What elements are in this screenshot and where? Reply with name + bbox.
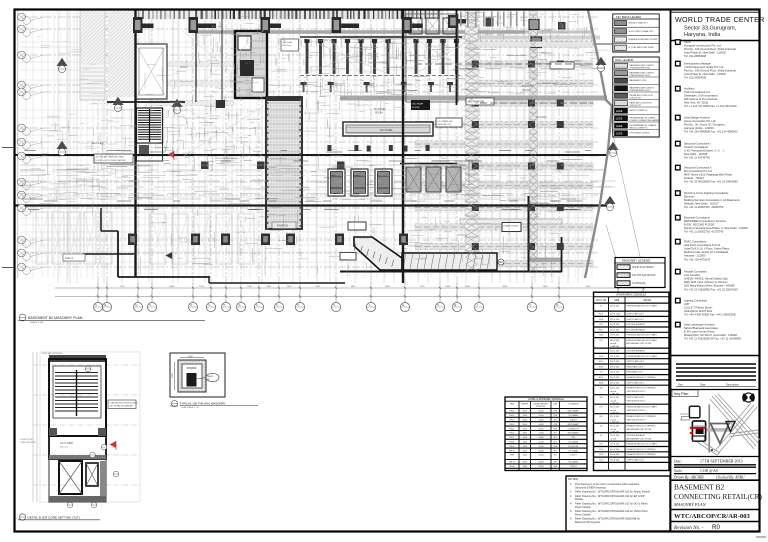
svg-text:+2100: +2100 bbox=[538, 446, 545, 448]
svg-text:TYPICAL 100 THK AAC MASONRY: TYPICAL 100 THK AAC MASONRY bbox=[180, 402, 226, 406]
svg-text:C: C bbox=[208, 303, 210, 307]
svg-text:K: K bbox=[297, 303, 299, 307]
svg-text:9000: 9000 bbox=[586, 286, 592, 288]
svg-text:duct Tray: duct Tray bbox=[283, 44, 291, 47]
svg-text:E: E bbox=[104, 303, 106, 307]
svg-text:RETAIL AIR CONDITION: RETAIL AIR CONDITION bbox=[630, 94, 654, 97]
svg-text:Structural Consultant II: Structural Consultant II bbox=[684, 166, 712, 170]
svg-text:+2600: +2600 bbox=[538, 450, 545, 452]
svg-text:PRESSURIZATION DUCT SHAFT: PRESSURIZATION DUCT SHAFT bbox=[627, 305, 658, 308]
svg-text:Energyde construction Pvt. Ltd: Energyde construction Pvt. Ltd. bbox=[684, 44, 722, 48]
svg-text:Lighting Consultant: Lighting Consultant bbox=[684, 299, 707, 303]
svg-text:Tel: +91 33 40105500 Fax: +91: Tel: +91 33 40105500 Fax: +91 33 2441458… bbox=[684, 180, 738, 184]
svg-text:Electrical Consultants: Electrical Consultants bbox=[684, 216, 710, 220]
svg-text:+2600: +2600 bbox=[538, 437, 545, 439]
svg-text:450 X 600: 450 X 600 bbox=[610, 340, 620, 342]
svg-text:AIR WASHER UNIT ROOM: AIR WASHER UNIT ROOM bbox=[627, 437, 652, 440]
svg-text:BIO PUMP: BIO PUMP bbox=[413, 104, 424, 106]
svg-text:WIDTH: WIDTH bbox=[521, 403, 528, 405]
svg-text:Client: Client bbox=[684, 40, 691, 44]
svg-text:DET.: DET. bbox=[207, 379, 211, 381]
svg-text:LDP: LDP bbox=[684, 302, 689, 306]
svg-text:PLAN SCALE 1 : 20: PLAN SCALE 1 : 20 bbox=[181, 406, 200, 409]
svg-text:Haryana - 121000: Haryana - 121000 bbox=[684, 254, 706, 258]
svg-text:AHU PLANT: AHU PLANT bbox=[92, 142, 105, 145]
svg-text:LBS Marg Mulund West, Mumbai -: LBS Marg Mulund West, Mumbai - 400080 bbox=[684, 284, 735, 288]
svg-text:Checked By: ANBU: Checked By: ANBU bbox=[716, 475, 745, 479]
svg-text:AIR WASHER UNIT ROOM: AIR WASHER UNIT ROOM bbox=[627, 342, 652, 345]
svg-text:+2400: +2400 bbox=[538, 466, 545, 468]
svg-text:REVERBERATION CHANGE: REVERBERATION CHANGE bbox=[630, 124, 658, 127]
svg-text:Key Plan: Key Plan bbox=[674, 392, 688, 396]
svg-text:New Delhi - 110048: New Delhi - 110048 bbox=[684, 152, 708, 156]
svg-text:17TH SEPTEMBER 2013: 17TH SEPTEMBER 2013 bbox=[700, 459, 742, 464]
svg-text:1.: 1. bbox=[570, 482, 572, 486]
svg-text:SUPPLY AIR DUCT: SUPPLY AIR DUCT bbox=[627, 360, 645, 363]
svg-text:LIFT LOBBY: LIFT LOBBY bbox=[60, 442, 74, 445]
svg-text:SIZE: SIZE bbox=[614, 300, 620, 302]
svg-text:250 X 400: 250 X 400 bbox=[610, 335, 620, 337]
svg-text:IN CM 1:4 BOTH SIDE PLASTER: IN CM 1:4 BOTH SIDE PLASTER bbox=[96, 159, 127, 162]
svg-text:C/W: C/W bbox=[553, 403, 557, 405]
svg-text:Date: Date bbox=[700, 383, 706, 387]
svg-text:900 X 600: 900 X 600 bbox=[610, 356, 620, 358]
svg-text:(S.B.) B.TST: (S.B.) B.TST bbox=[630, 105, 643, 107]
svg-text:1750: 1750 bbox=[199, 286, 205, 288]
svg-text:Haryana (India) - 122001: Haryana (India) - 122001 bbox=[684, 126, 714, 130]
svg-text:KEY BRICK LEGEND: KEY BRICK LEGEND bbox=[616, 15, 641, 19]
svg-text:DG TANK: DG TANK bbox=[536, 116, 547, 119]
svg-text:SUPPLY AIR DUCT: SUPPLY AIR DUCT bbox=[627, 381, 645, 384]
svg-text:SCALE 1:100: SCALE 1:100 bbox=[30, 321, 44, 324]
svg-text:DUCT NO: DUCT NO bbox=[596, 300, 607, 302]
svg-text:K: K bbox=[223, 303, 225, 307]
svg-text:7400: 7400 bbox=[266, 286, 272, 288]
svg-text:300 X 450: 300 X 450 bbox=[610, 351, 620, 353]
svg-text:curved: curved bbox=[610, 438, 616, 440]
svg-text:BASEMENT AIR CONDITI: BASEMENT AIR CONDITI bbox=[630, 64, 655, 67]
svg-text:900 X 600: 900 X 600 bbox=[610, 377, 620, 379]
svg-text:7400: 7400 bbox=[351, 286, 357, 288]
svg-text:REVERBERATION CHANG: REVERBERATION CHANG bbox=[630, 116, 656, 119]
svg-text:Facade Consultant: Facade Consultant bbox=[684, 270, 707, 274]
svg-text:+2600: +2600 bbox=[538, 462, 545, 464]
svg-text:625 Avenue of the Americas,: 625 Avenue of the Americas, bbox=[684, 97, 718, 101]
svg-text:Masjid Moth, GK-Part II, New D: Masjid Moth, GK-Part II, New Delhi - 110… bbox=[684, 333, 737, 337]
svg-text:450 X 600: 450 X 600 bbox=[610, 382, 620, 384]
svg-text:K: K bbox=[333, 303, 335, 307]
svg-text:WET-SHAFT: WET-SHAFT bbox=[567, 423, 579, 426]
svg-text:450 X 600: 450 X 600 bbox=[610, 324, 620, 326]
svg-text:7400: 7400 bbox=[287, 286, 293, 288]
svg-text:8400: 8400 bbox=[170, 286, 176, 288]
svg-text:EXHAUST AIR DUCT OPENING: EXHAUST AIR DUCT OPENING bbox=[627, 376, 656, 379]
svg-text:Rev.: Rev. bbox=[678, 383, 683, 387]
svg-text:VENTILATION DUCT: VENTILATION DUCT bbox=[627, 390, 647, 393]
svg-text:Dedesales, USA corporation,: Dedesales, USA corporation, bbox=[684, 94, 719, 98]
svg-text:FRESH AIR DUCT: FRESH AIR DUCT bbox=[627, 365, 644, 368]
svg-text:450 X 600: 450 X 600 bbox=[610, 407, 620, 409]
svg-text:Refer Drawing No.: WTC/ARCOP/G: Refer Drawing No.: WTC/ARCOP/G&A/AR-005&… bbox=[575, 517, 640, 521]
svg-text:Refer Drawing No.: WTC/ARCOP/G: Refer Drawing No.: WTC/ARCOP/G&A/AR-014 … bbox=[575, 509, 648, 513]
svg-text:MEPGREEN Consultancy Services: MEPGREEN Consultancy Services bbox=[684, 219, 727, 223]
svg-text:NO: NO bbox=[554, 437, 557, 439]
svg-text:LOWER CONNECTING BARRIO: LOWER CONNECTING BARRIO bbox=[630, 119, 661, 122]
svg-text:NO: NO bbox=[554, 450, 557, 452]
svg-text:TOILET: TOILET bbox=[570, 455, 578, 457]
svg-text:PV-CABIN: PV-CABIN bbox=[569, 461, 579, 464]
svg-text:7400: 7400 bbox=[543, 286, 549, 288]
svg-text:Refer Drawing No.: WTC/ARCOP/G: Refer Drawing No.: WTC/ARCOP/G&A/AR-013 … bbox=[575, 501, 648, 505]
svg-text:KITCHEN EXHAUST: KITCHEN EXHAUST bbox=[627, 350, 647, 353]
svg-text:Structural & MEP drawings.: Structural & MEP drawings. bbox=[575, 485, 607, 489]
svg-text:NO: NO bbox=[554, 455, 557, 457]
svg-text:900 X 600: 900 X 600 bbox=[610, 366, 620, 368]
svg-text:BASEMENT (CW): BASEMENT (CW) bbox=[630, 79, 647, 82]
svg-text:FW-11: FW-11 bbox=[509, 462, 516, 464]
svg-text:(+380.5B): (+380.5B) bbox=[610, 422, 619, 424]
svg-text:ROOM: ROOM bbox=[522, 89, 529, 92]
svg-text:Tel: +91 22 41815836 Fax: +91: Tel: +91 22 41815836 Fax: +91 22 2562432… bbox=[684, 287, 738, 291]
svg-text:Refer Drawing No.: WTC/ARCOP/G: Refer Drawing No.: WTC/ARCOP/G&A/AR-011 … bbox=[575, 490, 650, 494]
svg-text:Drawn By: ARCHIB: Drawn By: ARCHIB bbox=[673, 475, 704, 479]
svg-text:PRESSURIZATION DUCT SHAFT: PRESSURIZATION DUCT SHAFT bbox=[627, 355, 658, 358]
svg-text:+2400: +2400 bbox=[538, 433, 545, 435]
svg-text:H: H bbox=[135, 303, 137, 307]
svg-text:KEY DETAIL AS SIMILAR: KEY DETAIL AS SIMILAR bbox=[110, 405, 134, 408]
svg-text:BASEMENT B2: BASEMENT B2 bbox=[674, 483, 724, 492]
svg-text:Asia Push Consultants Pvt Ltd: Asia Push Consultants Pvt Ltd bbox=[684, 243, 721, 247]
svg-text:PRESSURIZATION DUCT SHAFT: PRESSURIZATION DUCT SHAFT bbox=[627, 334, 658, 337]
svg-text:1750: 1750 bbox=[120, 286, 126, 288]
svg-text:PV-CABIN: PV-CABIN bbox=[569, 449, 579, 452]
svg-text:5.: 5. bbox=[570, 509, 572, 513]
svg-text:Tel: +1 212 727-0000 Fax: +1 2: Tel: +1 212 727-0000 Fax: +1 212 633-004… bbox=[684, 104, 737, 108]
svg-text:PV-CABIN: PV-CABIN bbox=[569, 414, 579, 417]
svg-text:Room Details.: Room Details. bbox=[575, 505, 592, 509]
svg-text:USAGE: USAGE bbox=[643, 299, 652, 302]
svg-text:100 THK AAC BLOCK: 100 THK AAC BLOCK bbox=[632, 274, 656, 277]
svg-text:(+380.5B): (+380.5B) bbox=[610, 413, 619, 415]
svg-text:2.: 2. bbox=[570, 490, 572, 494]
svg-text:NO: NO bbox=[554, 433, 557, 435]
svg-text:Axis Facades: Axis Facades bbox=[684, 273, 701, 277]
svg-text:PRESSURIZATION DUCT SHAFT: PRESSURIZATION DUCT SHAFT bbox=[627, 406, 658, 409]
svg-text:+2100: +2100 bbox=[538, 442, 545, 444]
svg-text:Nambra Industrial Area Phase,: Nambra Industrial Area Phase, II, New De… bbox=[684, 226, 748, 230]
svg-text:SDB: SDB bbox=[599, 382, 604, 384]
svg-text:ONED/BUFFER (S.B.): ONED/BUFFER (S.B.) bbox=[630, 75, 651, 77]
svg-text:Details.: Details. bbox=[575, 497, 584, 501]
svg-text:710 Development (India) Pvt. L: 710 Development (India) Pvt. Ltd. bbox=[684, 65, 724, 69]
svg-text:R0: R0 bbox=[712, 524, 720, 531]
svg-text:Architect: Architect bbox=[684, 87, 695, 91]
svg-text:BASEMENT AIR CONDITI: BASEMENT AIR CONDITI bbox=[630, 71, 655, 74]
svg-text:1200: 1200 bbox=[172, 372, 174, 378]
svg-text:OTHER BRICK SCHEDULE: OTHER BRICK SCHEDULE bbox=[616, 294, 646, 297]
svg-text:Tel: +44 4 595 55360 Fax: +44: Tel: +44 4 595 55360 Fax: +44 2 66535358 bbox=[684, 313, 736, 317]
svg-text:PARK. AIR CONDITION: PARK. AIR CONDITION bbox=[630, 101, 653, 104]
svg-text:6.: 6. bbox=[570, 517, 572, 521]
svg-text:CORRIDOR: CORRIDOR bbox=[568, 428, 579, 430]
svg-text:curved: curved bbox=[610, 419, 616, 421]
svg-text:Basement B2 keyplan.: Basement B2 keyplan. bbox=[575, 520, 601, 524]
svg-text:curved: curved bbox=[610, 400, 616, 402]
svg-text:EXHAUST AIR DUCT OPENING: EXHAUST AIR DUCT OPENING bbox=[627, 415, 656, 418]
svg-text:YES: YES bbox=[553, 428, 558, 430]
svg-text:RAMP DN: RAMP DN bbox=[277, 225, 288, 228]
svg-text:SUPPLY AIR DUCT: SUPPLY AIR DUCT bbox=[627, 318, 645, 321]
svg-text:FRESH AIR DUCT: FRESH AIR DUCT bbox=[627, 371, 644, 374]
svg-text:+2100: +2100 bbox=[538, 415, 545, 417]
svg-text:Haryana, India: Haryana, India bbox=[684, 32, 721, 38]
svg-text:C: C bbox=[529, 303, 531, 307]
svg-text:TOILET: TOILET bbox=[570, 420, 578, 422]
svg-text:LEGE: LEGE bbox=[616, 132, 623, 135]
svg-text:E: E bbox=[402, 303, 404, 307]
svg-text:(SEE LAYOUT): (SEE LAYOUT) bbox=[438, 123, 452, 126]
svg-text:B-305, SECOND FLOOR,: B-305, SECOND FLOOR, bbox=[684, 223, 715, 227]
svg-text:Rally Wolf, Near Johnson & Joh: Rally Wolf, Near Johnson & Johnson bbox=[684, 280, 728, 284]
svg-text:PLANT ROOM: PLANT ROOM bbox=[504, 225, 519, 228]
svg-text:EXHAUST AIR DUCT OPENING: EXHAUST AIR DUCT OPENING bbox=[627, 448, 656, 451]
svg-text:EXHAUST AIR DUCT OPENING: EXHAUST AIR DUCT OPENING bbox=[627, 453, 656, 456]
svg-text:(+380.5B): (+380.5B) bbox=[610, 346, 619, 348]
svg-text:Structural Consultant I: Structural Consultant I bbox=[684, 142, 711, 146]
svg-text:MEDIA TONAL BTC: MEDIA TONAL BTC bbox=[629, 22, 649, 25]
svg-text:E: E bbox=[454, 303, 456, 307]
svg-text:VENTILATION DUCT: VENTILATION DUCT bbox=[627, 399, 647, 402]
svg-text:D: D bbox=[556, 303, 558, 307]
svg-text:MASONRY LEGEND: MASONRY LEGEND bbox=[622, 259, 651, 263]
svg-text:PROP.LVL: PROP.LVL bbox=[536, 406, 546, 408]
svg-text:Vintech Consultants: Vintech Consultants bbox=[684, 145, 709, 149]
svg-text:Ebonine,: Ebonine, bbox=[684, 195, 695, 199]
svg-text:900 X 600: 900 X 600 bbox=[610, 361, 620, 363]
svg-text:Description: Description bbox=[726, 383, 740, 387]
svg-text:8400: 8400 bbox=[446, 286, 452, 288]
svg-text:(B2 LVL): (B2 LVL) bbox=[60, 447, 68, 449]
svg-text:Tel: +91 11-26552718, 41375745: Tel: +91 11-26552718, 41375745 bbox=[684, 230, 724, 234]
svg-text:Mathura road, Sector 10 a Fari: Mathura road, Sector 10 a Faridabad, bbox=[684, 250, 729, 254]
svg-text:YES: YES bbox=[553, 411, 558, 413]
svg-text:TDB: TDB bbox=[599, 335, 604, 337]
svg-text:1:100 @ A0: 1:100 @ A0 bbox=[700, 469, 718, 473]
svg-text:300 X 450: 300 X 450 bbox=[610, 372, 620, 374]
svg-text:VENTILATION DUCT: VENTILATION DUCT bbox=[627, 418, 647, 421]
svg-text:3.: 3. bbox=[570, 494, 572, 498]
svg-text:SUPPLY AIR DUCT: SUPPLY AIR DUCT bbox=[627, 313, 645, 316]
svg-text:(+380.5B): (+380.5B) bbox=[610, 394, 619, 396]
svg-text:450 X 600: 450 X 600 bbox=[610, 306, 620, 308]
svg-text:Revision No. -: Revision No. - bbox=[673, 525, 704, 531]
svg-text:(S.B.) B.TST: (S.B.) B.TST bbox=[630, 97, 643, 99]
svg-text:300 X 450: 300 X 450 bbox=[610, 319, 620, 321]
svg-text:Area Phase III, New Delhi - 11: Area Phase III, New Delhi - 110020 bbox=[684, 72, 726, 76]
svg-text:TOILET: TOILET bbox=[570, 466, 578, 468]
svg-text:NO: NO bbox=[554, 442, 557, 444]
svg-text:Room Details.: Room Details. bbox=[575, 512, 592, 516]
svg-text:CONDUCTOR: CONDUCTOR bbox=[20, 439, 34, 441]
svg-text:KOK International Ltd.: KOK International Ltd. bbox=[684, 90, 711, 94]
svg-text:LEGE: LEGE bbox=[616, 110, 623, 113]
svg-text:300 X 450: 300 X 450 bbox=[610, 397, 620, 399]
svg-text:Refer Drawing No.: WTC/ARCOP/G: Refer Drawing No.: WTC/ARCOP/G&A/AR-012 … bbox=[575, 494, 645, 498]
svg-text:9000: 9000 bbox=[385, 286, 391, 288]
svg-text:+2400: +2400 bbox=[538, 420, 545, 422]
svg-text:NO: NO bbox=[554, 420, 557, 422]
svg-text:Mrl Consultants Pvt Ltd: Mrl Consultants Pvt Ltd bbox=[684, 169, 712, 173]
svg-text:+2400: +2400 bbox=[538, 424, 545, 426]
svg-text:E-36 Lower Ground Floor,: E-36 Lower Ground Floor, bbox=[684, 330, 715, 334]
svg-text:LIFT: LIFT bbox=[245, 62, 250, 65]
svg-text:Tel: +91 129-4072076: Tel: +91 129-4072076 bbox=[684, 257, 711, 261]
svg-text:Suite/7a 9 & 10, V Floor, Gree: Suite/7a 9 & 10, V Floor, Green Plaza, bbox=[684, 247, 730, 251]
svg-text:+2100: +2100 bbox=[538, 411, 545, 413]
svg-text:SUPPLY AIR DUCT: SUPPLY AIR DUCT bbox=[627, 459, 645, 462]
svg-text:STB: STB bbox=[599, 366, 604, 368]
svg-text:YES: YES bbox=[553, 424, 558, 426]
svg-text:LOCATION: LOCATION bbox=[568, 402, 579, 405]
svg-text:9000: 9000 bbox=[503, 286, 509, 288]
svg-text:PV-CABIN: PV-CABIN bbox=[569, 441, 579, 444]
svg-text:K: K bbox=[149, 303, 151, 307]
svg-text:PRESSURIZATION DUCT SHAFT: PRESSURIZATION DUCT SHAFT bbox=[627, 339, 658, 342]
svg-text:YES: YES bbox=[553, 415, 558, 417]
svg-text:ROOM: ROOM bbox=[413, 107, 420, 109]
svg-text:G: G bbox=[238, 303, 240, 307]
svg-text:T BELOW PIPES: T BELOW PIPES bbox=[20, 442, 36, 444]
svg-text:(+380.5B): (+380.5B) bbox=[610, 432, 619, 434]
svg-text:DG-ROOM: DG-ROOM bbox=[568, 446, 578, 448]
svg-text:EXHAUST AIR DUCT OPENING: EXHAUST AIR DUCT OPENING bbox=[627, 425, 656, 428]
svg-text:YES: YES bbox=[553, 446, 558, 448]
svg-text:250 X 400: 250 X 400 bbox=[610, 444, 620, 446]
svg-text:India Landscape Architect: India Landscape Architect bbox=[684, 323, 715, 327]
svg-text:Kolkata - 700107: Kolkata - 700107 bbox=[684, 176, 705, 180]
svg-text:Tel: +91 124 4580000 Fax: +91: Tel: +91 124 4580000 Fax: +91 124 458000… bbox=[684, 130, 738, 134]
svg-text:Anoop Associates Pvt. Ltd.: Anoop Associates Pvt. Ltd. bbox=[684, 119, 716, 123]
svg-text:SUPPLY AIR DUCT: SUPPLY AIR DUCT bbox=[627, 396, 645, 399]
svg-text:KITCHEN EXHAUST: KITCHEN EXHAUST bbox=[627, 328, 647, 331]
svg-text:Area Phase III, New Delhi - 11: Area Phase III, New Delhi - 110020 bbox=[684, 51, 726, 55]
svg-text:450 X 600: 450 X 600 bbox=[610, 416, 620, 418]
svg-text:FW-10: FW-10 bbox=[509, 450, 516, 452]
svg-text:900 X 600: 900 X 600 bbox=[610, 460, 620, 462]
svg-text:+2100: +2100 bbox=[538, 455, 545, 457]
svg-text:Plot No.: 106 Ground Floor, Sh: Plot No.: 106 Ground Floor, Shitla Indus… bbox=[684, 47, 736, 51]
svg-text:2155 1010 1515 850: 2155 1010 1515 850 bbox=[42, 353, 63, 355]
svg-text:AHU-4: AHU-4 bbox=[65, 256, 73, 260]
svg-text:D: D bbox=[190, 303, 192, 307]
svg-text:MASONRY PLAN: MASONRY PLAN bbox=[673, 502, 707, 507]
svg-text:ROOM: ROOM bbox=[375, 112, 382, 115]
svg-text:WORLD TRADE CENTER: WORLD TRADE CENTER bbox=[675, 16, 765, 24]
svg-text:Scale:: Scale: bbox=[674, 469, 683, 473]
svg-text:PRESSURIZATION DUCT SHAFT: PRESSURIZATION DUCT SHAFT bbox=[627, 443, 658, 446]
svg-text:R.T LAY BRICK AS PLAN: R.T LAY BRICK AS PLAN bbox=[629, 46, 654, 49]
svg-text:2/453/5, 4/453/5, Nirmal Galax: 2/453/5, 4/453/5, Nirmal Galaxy Opp. bbox=[684, 277, 729, 281]
svg-text:Tel: 011-26054008: Tel: 011-26054008 bbox=[684, 54, 707, 58]
svg-text:7400: 7400 bbox=[315, 286, 321, 288]
svg-text:C-45, Pamposh Enclave, G. K. -: C-45, Pamposh Enclave, G. K. - I, bbox=[684, 149, 725, 153]
svg-text:Tel: +91 11 40743745: Tel: +91 11 40743745 bbox=[684, 156, 710, 160]
svg-text:Tel: +91 11-26007297, 26652763: Tel: +91 11-26007297, 26652763 bbox=[684, 205, 724, 209]
svg-text:WET-SHAFT: WET-SHAFT bbox=[567, 432, 579, 435]
svg-text:1000: 1000 bbox=[188, 356, 194, 358]
svg-text:BRICK LOWER FD: BRICK LOWER FD bbox=[630, 127, 648, 129]
svg-text:Plumbing & Fire Fighting Consu: Plumbing & Fire Fighting Consultants bbox=[684, 191, 729, 195]
svg-text:Date:: Date: bbox=[673, 460, 682, 464]
svg-text:900 X 600: 900 X 600 bbox=[610, 454, 620, 456]
svg-text:36a: 36a bbox=[499, 261, 504, 264]
svg-text:21/LLP 7 Palmer Street,: 21/LLP 7 Palmer Street, bbox=[684, 306, 713, 310]
svg-text:Sahub Bhatnavik Associates,: Sahub Bhatnavik Associates, bbox=[684, 326, 719, 330]
svg-text:100 THK AAC MASONRY WALL: 100 THK AAC MASONRY WALL bbox=[96, 156, 126, 159]
svg-text:DRY LINING LIGHTS: DRY LINING LIGHTS bbox=[630, 132, 651, 134]
svg-text:250 X 400: 250 X 400 bbox=[610, 388, 620, 390]
svg-text:SHAFT: SHAFT bbox=[180, 66, 188, 69]
svg-text:NO: NO bbox=[554, 462, 557, 464]
svg-text:BASEMENT B2 MASONRY PLAN: BASEMENT B2 MASONRY PLAN bbox=[28, 316, 83, 320]
svg-text:450 X 600: 450 X 600 bbox=[610, 329, 620, 331]
svg-text:BASEMENT AIR CONDITI: BASEMENT AIR CONDITI bbox=[630, 86, 655, 89]
svg-text:900 X 600: 900 X 600 bbox=[610, 449, 620, 451]
svg-text:This drawing is to be read in: This drawing is to be read in conjunctio… bbox=[575, 482, 640, 486]
svg-text:VENTILATION DUCT: VENTILATION DUCT bbox=[627, 409, 647, 412]
svg-text:FBP: FBP bbox=[510, 455, 515, 457]
svg-text:New York, NY 10011: New York, NY 10011 bbox=[684, 101, 709, 105]
svg-text:CONNECTING RETAIL(CR): CONNECTING RETAIL(CR) bbox=[674, 493, 762, 501]
svg-text:EXHAUST AIR DUCT OPENING: EXHAUST AIR DUCT OPENING bbox=[627, 387, 656, 390]
svg-text:RD-B: RD-B bbox=[510, 466, 516, 468]
svg-text:KITCHEN EXHAUST: KITCHEN EXHAUST bbox=[627, 434, 647, 437]
svg-text:Plot No.: 106 Ground Floor, Sh: Plot No.: 106 Ground Floor, Shitla Indus… bbox=[684, 69, 736, 73]
svg-text:RUBBLEWORK AND FILLER: RUBBLEWORK AND FILLER bbox=[629, 38, 658, 41]
svg-text:1750: 1750 bbox=[420, 286, 426, 288]
svg-text:Building Services Consultants: Building Services Consultants 4, A4 Base… bbox=[684, 198, 740, 202]
svg-text:NON-STRUCTURAL BTC: NON-STRUCTURAL BTC bbox=[629, 30, 655, 33]
svg-text:900 X 600: 900 X 600 bbox=[610, 426, 620, 428]
svg-text:Development Manager: Development Manager bbox=[684, 62, 711, 66]
svg-text:NOTES:: NOTES: bbox=[568, 477, 579, 481]
svg-text:WTC/ARCOP/CR/AR-003: WTC/ARCOP/CR/AR-003 bbox=[674, 513, 751, 520]
svg-text:LEGE: LEGE bbox=[616, 117, 623, 120]
svg-text:KITCHEN EXHAUST: KITCHEN EXHAUST bbox=[627, 323, 647, 326]
svg-text:4.: 4. bbox=[570, 501, 572, 505]
svg-text:TRACK: TRACK bbox=[207, 375, 214, 378]
svg-text:DG PANEL: DG PANEL bbox=[380, 128, 393, 132]
svg-text:PLASTER BOTH SIDES 15MM: PLASTER BOTH SIDES 15MM bbox=[110, 402, 138, 405]
svg-text:AIR WASHER UNIT ROOM: AIR WASHER UNIT ROOM bbox=[627, 428, 652, 431]
svg-text:Plot No.: 36, Sector 32, Gurug: Plot No.: 36, Sector 32, Gurugram, bbox=[684, 123, 726, 127]
svg-text:+2600: +2600 bbox=[538, 428, 545, 430]
svg-text:Sector 33,Gurugram,: Sector 33,Gurugram, bbox=[684, 26, 737, 32]
svg-text:Tel: 011-26054008: Tel: 011-26054008 bbox=[684, 76, 707, 80]
svg-text:250 X 400: 250 X 400 bbox=[610, 435, 620, 437]
svg-text:India Design Architect: India Design Architect bbox=[684, 116, 710, 120]
svg-text:PCC PANEL RM: PCC PANEL RM bbox=[438, 120, 453, 123]
svg-text:curved: curved bbox=[610, 429, 616, 431]
svg-text:ONED/BUFFER (CW): ONED/BUFFER (CW) bbox=[630, 67, 651, 69]
svg-text:WALL LEGEND: WALL LEGEND bbox=[615, 58, 633, 62]
svg-text:MKK House 1516, Rajdanga Main: MKK House 1516, Rajdanga Main Road bbox=[684, 173, 732, 177]
svg-text:600 X 1100: 600 X 1100 bbox=[610, 314, 621, 316]
svg-text:BRICK LOWER FD: BRICK LOWER FD bbox=[630, 110, 648, 112]
svg-text:RVAC Consultants: RVAC Consultants bbox=[684, 240, 707, 244]
svg-text:ONED/BUFFER (S.B.): ONED/BUFFER (S.B.) bbox=[630, 90, 651, 92]
svg-text:WET-SHAFT: WET-SHAFT bbox=[567, 410, 579, 413]
